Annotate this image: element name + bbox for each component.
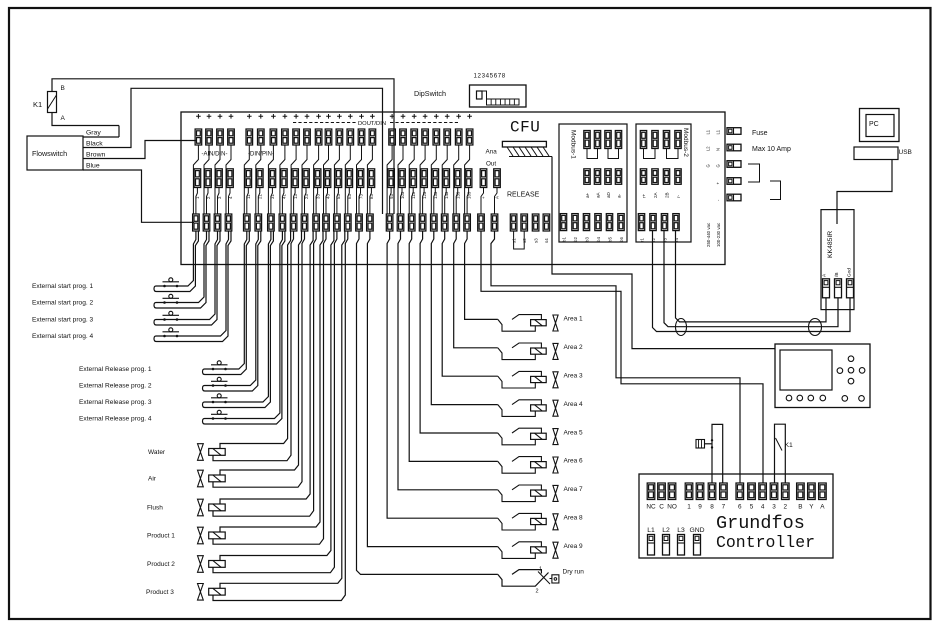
wire Flush return <box>213 231 316 516</box>
svg-text:Product 2: Product 2 <box>147 561 175 568</box>
svg-text:Product 3: Product 3 <box>146 589 174 596</box>
svg-text:r3: r3 <box>663 238 668 242</box>
svg-text:Out: Out <box>486 161 496 168</box>
strap under s1-s2 <box>514 231 525 249</box>
Modbus-1 top terminals <box>584 131 622 149</box>
svg-text:Product 1: Product 1 <box>147 533 175 540</box>
svg-text:Dry run: Dry run <box>563 569 585 576</box>
svg-text:-AIN/DIN-: -AIN/DIN- <box>202 152 228 158</box>
svg-text:6: 6 <box>738 504 742 511</box>
Modbus-2 bottom terminals r1-r4 <box>638 214 679 242</box>
svg-text:K1: K1 <box>33 100 42 109</box>
svg-text:N: N <box>716 148 721 151</box>
svg-text:L1: L1 <box>716 129 721 134</box>
svg-text:1: 1 <box>539 567 542 573</box>
terminal row 2 (middle) <box>194 169 472 188</box>
Grundfos signal terminals <box>647 483 826 500</box>
jumper bracket 2 <box>770 181 781 200</box>
svg-text:Water: Water <box>148 449 166 456</box>
relay K1 <box>33 85 66 122</box>
Modbus-1 bottom terminals b1-b6 <box>560 214 624 242</box>
svg-text:G: G <box>706 164 711 167</box>
sensor Dry run <box>498 570 559 587</box>
dipswitch SW1 <box>470 85 527 107</box>
Modbus-1 straps <box>587 149 619 159</box>
controller Grundfos box <box>639 474 833 558</box>
svg-text:Grundfos: Grundfos <box>716 513 805 534</box>
svg-text:PC: PC <box>869 121 879 128</box>
wire Product 2 supply <box>220 231 334 561</box>
wire Air return <box>213 231 305 487</box>
valve Product 1 <box>198 527 226 544</box>
wire RS485 A <box>653 231 851 332</box>
wire AnaOut to Grundfos 6 <box>491 231 740 483</box>
svg-text:External start prog. 2: External start prog. 2 <box>32 300 94 307</box>
svg-text:Flowswitch: Flowswitch <box>32 149 67 158</box>
wire K1.A to Gray <box>52 113 119 126</box>
svg-text:RELEASE: RELEASE <box>507 192 540 199</box>
module Modbus-1 <box>559 124 627 242</box>
wire to Area 2 <box>454 231 498 348</box>
svg-text:Fuse: Fuse <box>752 130 768 137</box>
svg-text:1: 1 <box>687 504 691 511</box>
svg-text:12345678: 12345678 <box>474 73 506 80</box>
wire Flush supply <box>220 231 313 504</box>
wire to Area 8 <box>387 231 498 518</box>
svg-text:A: A <box>61 115 66 122</box>
svg-text:a-: a- <box>617 193 622 198</box>
Modbus-2 straps <box>644 149 679 159</box>
wire ribbon to panel <box>552 157 775 349</box>
svg-text:Area 2: Area 2 <box>564 344 584 351</box>
svg-text:2B: 2B <box>665 192 670 198</box>
wire Product 3 return <box>213 231 348 601</box>
svg-text:Controller: Controller <box>716 533 815 552</box>
svg-text:Area 4: Area 4 <box>564 401 584 408</box>
Grundfos mains terminals <box>648 535 701 556</box>
svg-text:USB: USB <box>899 149 912 156</box>
svg-text:KK485IR: KK485IR <box>827 231 834 258</box>
svg-text:B: B <box>61 85 65 92</box>
svg-text:3: 3 <box>772 504 776 511</box>
valve Area 8 <box>498 513 558 530</box>
svg-text:aD: aD <box>606 191 611 198</box>
terminal row 1 (top) <box>195 129 473 145</box>
wire Water return <box>213 231 294 461</box>
wire RS485 B <box>664 231 838 327</box>
switch external release prog 3 <box>203 231 274 408</box>
svg-text:Y: Y <box>809 504 814 511</box>
wire to Area 7 <box>398 231 498 490</box>
svg-text:r1: r1 <box>640 238 645 242</box>
valve Area 9 <box>498 542 558 559</box>
wire to Area 1 <box>465 231 498 319</box>
svg-text:DipSwitch: DipSwitch <box>414 89 446 98</box>
svg-text:r4: r4 <box>674 238 679 242</box>
valve Area 1 <box>498 315 558 332</box>
svg-text:Area 6: Area 6 <box>564 458 584 465</box>
svg-text:B: B <box>798 504 802 511</box>
svg-text:b6: b6 <box>619 237 624 242</box>
svg-text:a+: a+ <box>585 192 590 198</box>
terminal strip plus marks <box>196 114 472 119</box>
svg-text:G: G <box>716 164 721 167</box>
Modbus-2 middle terminals <box>640 169 681 198</box>
svg-text:Modbus-1: Modbus-1 <box>570 130 577 159</box>
svg-text:+: + <box>481 196 486 199</box>
wire to Area 6 <box>409 231 498 461</box>
svg-text:s3: s3 <box>533 238 538 243</box>
cable marker left <box>676 319 687 336</box>
svg-text:5: 5 <box>750 504 754 511</box>
svg-text:/B: /B <box>834 272 840 277</box>
terminals Ana Out row3 <box>478 188 498 232</box>
wire Product 1 return <box>213 231 326 544</box>
svg-text:250-440 vac: 250-440 vac <box>706 222 711 247</box>
thermal switch T <box>696 439 713 449</box>
svg-text:2A: 2A <box>653 191 658 198</box>
svg-text:2: 2 <box>784 504 788 511</box>
terminal row 3 (bottom) <box>193 214 471 231</box>
svg-text:GND: GND <box>689 527 704 534</box>
svg-text:L3: L3 <box>677 527 685 534</box>
svg-text:DOUT/DIN: DOUT/DIN <box>358 121 386 127</box>
module Modbus-2 <box>636 124 691 242</box>
keyboard USB <box>854 147 912 160</box>
svg-text:100-230 vac: 100-230 vac <box>716 222 721 247</box>
computer PC <box>860 109 900 142</box>
svg-text:r2: r2 <box>651 238 656 242</box>
wire Product 1 supply <box>220 231 323 532</box>
svg-text:Gray: Gray <box>86 130 101 137</box>
svg-text:Max 10 Amp: Max 10 Amp <box>752 146 791 153</box>
power inlet labels <box>706 129 721 201</box>
svg-text:CFU: CFU <box>510 119 540 137</box>
svg-text:Area 5: Area 5 <box>564 429 584 436</box>
svg-text:Modbus-2: Modbus-2 <box>682 128 689 157</box>
label Ana Out <box>486 149 498 168</box>
svg-text:Blue: Blue <box>86 163 100 170</box>
KK485IR terminals <box>823 279 854 298</box>
valve Area 2 <box>498 343 558 360</box>
wire to Area 5 <box>420 231 498 433</box>
wire to Area 3 <box>442 231 498 376</box>
terminals RELEASE s1-s4 <box>510 214 549 243</box>
svg-text:b5: b5 <box>608 237 613 242</box>
svg-text:Area 9: Area 9 <box>564 543 584 550</box>
label Dry run pins <box>536 567 543 595</box>
valve Air <box>198 470 226 487</box>
svg-text:s4: s4 <box>544 238 549 243</box>
svg-text:Brown: Brown <box>86 152 105 159</box>
terminals Ana Out row2 <box>480 169 500 199</box>
svg-text:L1: L1 <box>706 129 711 134</box>
wire to Area 9 <box>367 231 497 547</box>
wire K1.B to bus top <box>52 79 394 214</box>
svg-text:Ana: Ana <box>486 149 498 156</box>
svg-text:2: 2 <box>536 589 539 595</box>
KK485IR pin labels A /B Gnd <box>822 268 853 277</box>
svg-text:4: 4 <box>761 504 765 511</box>
svg-text:External Release prog. 1: External Release prog. 1 <box>79 366 152 373</box>
switch external start prog 1 <box>154 231 198 292</box>
valve Product 2 <box>198 556 226 573</box>
label Gray <box>83 126 119 138</box>
flowswitch FS1 <box>27 136 83 170</box>
Modbus-1 middle terminals <box>584 169 622 198</box>
power plug terminals <box>727 128 741 201</box>
controller CFU enclosure <box>181 112 725 265</box>
svg-text:Air: Air <box>148 476 157 483</box>
label Fuse Max 10 Amp <box>752 130 791 153</box>
valve Area 4 <box>498 400 558 417</box>
svg-text:External start prog. 4: External start prog. 4 <box>32 333 94 340</box>
switch external release prog 1 <box>203 231 250 375</box>
wire PC to KK485IR <box>837 160 892 225</box>
switch external start prog 2 <box>154 231 209 308</box>
wire Blue <box>83 163 194 223</box>
row1-row2 jog wires and exit wires <box>193 145 469 214</box>
wire Water supply <box>220 231 291 449</box>
switch external release prog 4 <box>203 231 285 424</box>
svg-text:b1: b1 <box>562 237 567 242</box>
contact K1 on strap 3-2 <box>775 424 794 483</box>
svg-text:b4: b4 <box>596 237 601 242</box>
wire to Area 4 <box>431 231 498 405</box>
cable marker right <box>809 319 822 336</box>
valve Product 3 <box>198 584 226 601</box>
svg-text:C: C <box>659 504 664 511</box>
svg-text:r-: r- <box>676 194 681 198</box>
svg-text:A: A <box>820 504 825 511</box>
svg-text:9: 9 <box>698 504 702 511</box>
svg-text:External Release prog. 3: External Release prog. 3 <box>79 399 152 406</box>
svg-text:L1: L1 <box>647 527 655 534</box>
Grundfos mains labels L1 L2 L3 GND <box>647 527 704 534</box>
svg-text:L2: L2 <box>662 527 670 534</box>
svg-text:aA: aA <box>596 191 601 198</box>
svg-text:Black: Black <box>86 141 103 148</box>
valve Area 6 <box>498 457 558 474</box>
svg-text:K1: K1 <box>785 442 794 449</box>
svg-text:Flush: Flush <box>147 505 163 512</box>
valve Area 3 <box>498 371 558 388</box>
row 2 terminal number labels <box>195 191 471 199</box>
Modbus-2 top terminals <box>640 131 681 149</box>
svg-text:7: 7 <box>722 504 726 511</box>
svg-text:External Release prog. 2: External Release prog. 2 <box>79 383 152 390</box>
svg-text:Gnd: Gnd <box>847 268 853 277</box>
jumper bracket 1 <box>748 164 760 182</box>
svg-text:NC: NC <box>646 504 656 511</box>
labels External start prog 1-4 <box>32 283 94 340</box>
svg-text:Area 3: Area 3 <box>564 373 584 380</box>
wire Product 3 supply <box>220 231 345 588</box>
wire AnaOut to Grundfos 4 <box>481 231 763 483</box>
svg-text:L2: L2 <box>706 146 711 151</box>
valve Area 7 <box>498 485 558 502</box>
wire to Dry run <box>357 231 498 574</box>
remote control panel R100 <box>775 344 870 408</box>
converter KK485IR <box>821 210 854 310</box>
wire RS485 Gnd <box>676 231 827 322</box>
svg-text:External Release prog. 4: External Release prog. 4 <box>79 416 152 423</box>
svg-text:A: A <box>495 196 500 199</box>
valve Flush <box>198 499 226 516</box>
strap terminals 8-7 with T contact <box>712 424 723 483</box>
svg-text:Area 8: Area 8 <box>564 515 584 522</box>
switch external start prog 4 <box>154 231 231 342</box>
wire Air supply <box>220 231 302 475</box>
switch external start prog 3 <box>154 231 220 325</box>
wire Brown <box>83 141 196 159</box>
wire Product 2 return <box>213 231 337 573</box>
svg-text:8: 8 <box>710 504 714 511</box>
labels External Release prog 1-4 <box>79 366 152 423</box>
valve Water <box>198 444 226 461</box>
valve Area 5 <box>498 428 558 445</box>
wire Black <box>83 88 383 214</box>
svg-text:External start prog. 3: External start prog. 3 <box>32 317 94 324</box>
svg-text:b2: b2 <box>573 237 578 242</box>
svg-text:External start prog. 1: External start prog. 1 <box>32 283 94 290</box>
svg-text:Area 1: Area 1 <box>564 316 584 323</box>
svg-text:Area 7: Area 7 <box>564 486 584 493</box>
Grundfos terminal labels <box>646 504 825 511</box>
svg-text:b3: b3 <box>585 237 590 242</box>
ribbon cable connector <box>502 141 552 156</box>
label DOUT/DIN with dashed rails <box>293 121 458 127</box>
svg-text:NO: NO <box>667 504 677 511</box>
svg-text:r+: r+ <box>642 193 647 198</box>
switch external release prog 2 <box>203 231 261 391</box>
